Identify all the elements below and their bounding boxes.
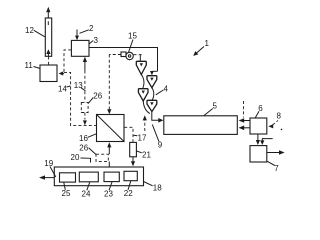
arrows box 6 to box 7 xyxy=(256,134,273,145)
label 7 xyxy=(267,161,279,173)
box 3 xyxy=(71,40,89,56)
dashed line pump left xyxy=(109,54,121,56)
heat exchanger box 16 xyxy=(97,115,125,142)
dashed line pump to box 16 xyxy=(107,55,111,115)
svg-text:1: 1 xyxy=(205,39,210,48)
cyclone c2 xyxy=(147,76,157,88)
svg-text:15: 15 xyxy=(128,32,137,41)
label 19 xyxy=(44,159,56,177)
svg-text:2: 2 xyxy=(89,24,94,33)
duct c1-c3 xyxy=(141,75,144,89)
dashed box 26a xyxy=(81,102,88,112)
label 17 xyxy=(134,134,147,143)
svg-text:8: 8 xyxy=(277,112,282,121)
box 25 xyxy=(60,173,76,182)
svg-text:26: 26 xyxy=(79,144,88,153)
label 20 xyxy=(71,153,91,163)
label 23 xyxy=(104,182,113,199)
dashed line 16 right to rect 21 xyxy=(124,127,133,142)
svg-text:21: 21 xyxy=(142,151,151,160)
label 9 xyxy=(152,125,163,150)
svg-text:26: 26 xyxy=(93,92,102,101)
svg-text:25: 25 xyxy=(62,189,71,198)
label 22 xyxy=(124,181,133,198)
dashed line pump right xyxy=(134,54,144,56)
label 6 xyxy=(255,104,263,118)
svg-text:5: 5 xyxy=(213,102,218,111)
svg-text:16: 16 xyxy=(79,134,88,143)
svg-text:22: 22 xyxy=(124,189,133,198)
label 13 xyxy=(74,81,86,91)
label 15 xyxy=(128,32,137,53)
box 7 xyxy=(250,146,267,162)
box 11 xyxy=(40,65,57,82)
duct c2-c4 xyxy=(152,88,154,101)
kiln feed from c4 xyxy=(152,112,164,123)
conveyor box 18 xyxy=(54,167,143,186)
box 6 xyxy=(250,118,267,134)
box 22 xyxy=(124,171,137,180)
arrows kiln right end from box 6 xyxy=(239,118,250,130)
box 24 xyxy=(79,172,98,182)
tower 12 xyxy=(45,18,51,56)
arrow rect 21 down to box 22 xyxy=(131,157,135,167)
label 4 xyxy=(156,85,169,95)
cyclone c1 xyxy=(136,61,146,74)
pump 15 xyxy=(121,52,133,60)
svg-text:24: 24 xyxy=(82,190,91,199)
svg-text:12: 12 xyxy=(25,26,34,35)
svg-text:19: 19 xyxy=(44,159,53,168)
svg-text:9: 9 xyxy=(158,141,163,150)
gas line from box 3 to riser xyxy=(89,48,158,72)
svg-text:23: 23 xyxy=(104,190,113,199)
label 18 xyxy=(144,182,163,193)
arrow out of tower top xyxy=(46,7,50,18)
label 11 xyxy=(25,61,41,70)
wire tower to box 11 xyxy=(48,57,50,66)
arrow out of box 7 xyxy=(267,150,285,155)
dashed line 13 xyxy=(83,71,87,126)
label 12 xyxy=(25,26,45,37)
dashed arrow into box 11 right xyxy=(59,71,64,75)
arrow into box 3 bottom xyxy=(83,57,87,71)
svg-text:18: 18 xyxy=(153,184,162,193)
svg-text:7: 7 xyxy=(274,164,279,173)
svg-text:3: 3 xyxy=(94,36,99,45)
dashed box 26b xyxy=(96,154,108,161)
label 1 with arrow xyxy=(193,39,209,56)
label 21 xyxy=(137,151,152,160)
label 26b xyxy=(79,144,96,155)
wire into cyclone 1 top xyxy=(139,55,141,61)
svg-text:17: 17 xyxy=(138,134,147,143)
arrow 8 into box 6 xyxy=(268,121,282,131)
dashed line 14 from box3 down xyxy=(64,50,96,126)
svg-text:4: 4 xyxy=(164,85,169,94)
arrow from riser into cyclone 2 top xyxy=(150,71,158,75)
dashed arrow 17 up xyxy=(143,115,147,131)
dashed stub above kiln right xyxy=(243,101,245,118)
label 5 xyxy=(204,102,218,116)
rotary kiln 5 xyxy=(164,116,238,135)
label 2 xyxy=(80,24,95,33)
arrow 19 out of box 18 xyxy=(39,175,54,179)
label 3 xyxy=(89,36,98,45)
svg-text:20: 20 xyxy=(71,153,80,162)
label 16 xyxy=(79,134,96,143)
cyclone c3 xyxy=(138,89,148,101)
arrow up into box 16 bottom xyxy=(107,142,111,167)
label 26a xyxy=(88,92,102,104)
arrow 2 into box 3 xyxy=(75,30,79,41)
box 23 xyxy=(104,172,119,182)
svg-text:14: 14 xyxy=(58,85,67,94)
label 14 xyxy=(58,85,70,94)
label 24 xyxy=(82,182,91,199)
duct c3-outlet xyxy=(143,101,150,114)
label 25 xyxy=(62,183,71,199)
rect 21 xyxy=(130,142,137,156)
svg-text:11: 11 xyxy=(25,61,34,70)
cyclone c4 xyxy=(147,100,157,111)
